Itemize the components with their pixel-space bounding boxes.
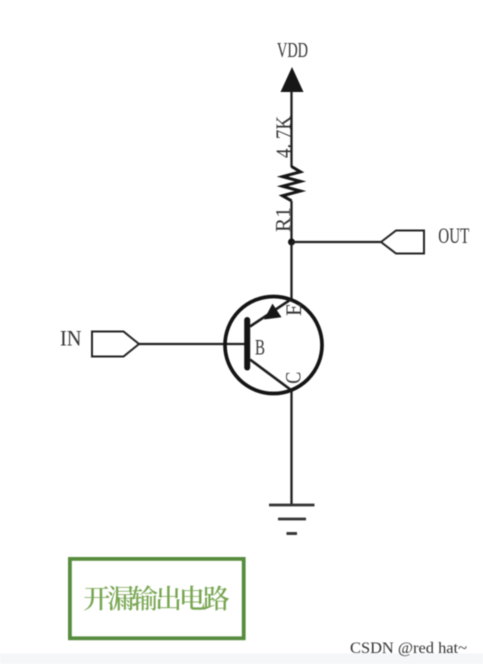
bottom page strip	[0, 654, 483, 664]
wire collector to ground	[290, 390, 292, 505]
wire node to emitter	[290, 242, 292, 300]
wire IN flag to base	[139, 343, 245, 345]
caption text 开漏输出电路	[84, 585, 229, 610]
ground symbol bar 3	[287, 532, 298, 535]
svg-text:B: B	[255, 335, 265, 360]
svg-text:C: C	[280, 372, 305, 384]
watermark CSDN @red hat~	[350, 640, 467, 657]
pin label B	[255, 335, 265, 360]
transistor Q1 emitter arrow (PNP)	[264, 304, 282, 320]
net label VDD	[277, 38, 308, 62]
wire VDD to resistor	[290, 91, 292, 167]
svg-text:IN: IN	[60, 325, 82, 350]
ground symbol bar 1	[269, 504, 315, 507]
pin label C	[280, 372, 305, 384]
svg-text:VDD: VDD	[277, 38, 308, 62]
resistor R1 body	[283, 167, 301, 201]
svg-text:OUT: OUT	[438, 223, 469, 248]
value label 4.7K	[272, 116, 296, 158]
ground symbol bar 2	[278, 518, 306, 521]
port flag OUT	[381, 231, 424, 254]
transistor Q1 emitter line	[250, 299, 292, 327]
port label IN	[60, 325, 82, 350]
svg-text:4. 7K: 4. 7K	[272, 116, 296, 158]
reference label R1	[271, 207, 295, 232]
svg-text:E: E	[281, 303, 306, 316]
transistor Q1 collector line	[250, 360, 291, 391]
wire resistor to node	[290, 201, 292, 242]
port label OUT	[438, 223, 469, 248]
transistor Q1 body circle	[225, 297, 322, 394]
wire node to OUT flag	[292, 241, 382, 243]
pin label E	[281, 303, 306, 316]
junction node dot	[288, 239, 295, 246]
power symbol VDD arrow	[281, 67, 304, 92]
transistor Q1 base bar	[244, 320, 250, 368]
svg-text:CSDN @red hat~: CSDN @red hat~	[350, 640, 467, 657]
caption box	[70, 559, 244, 638]
port flag IN	[92, 332, 139, 357]
